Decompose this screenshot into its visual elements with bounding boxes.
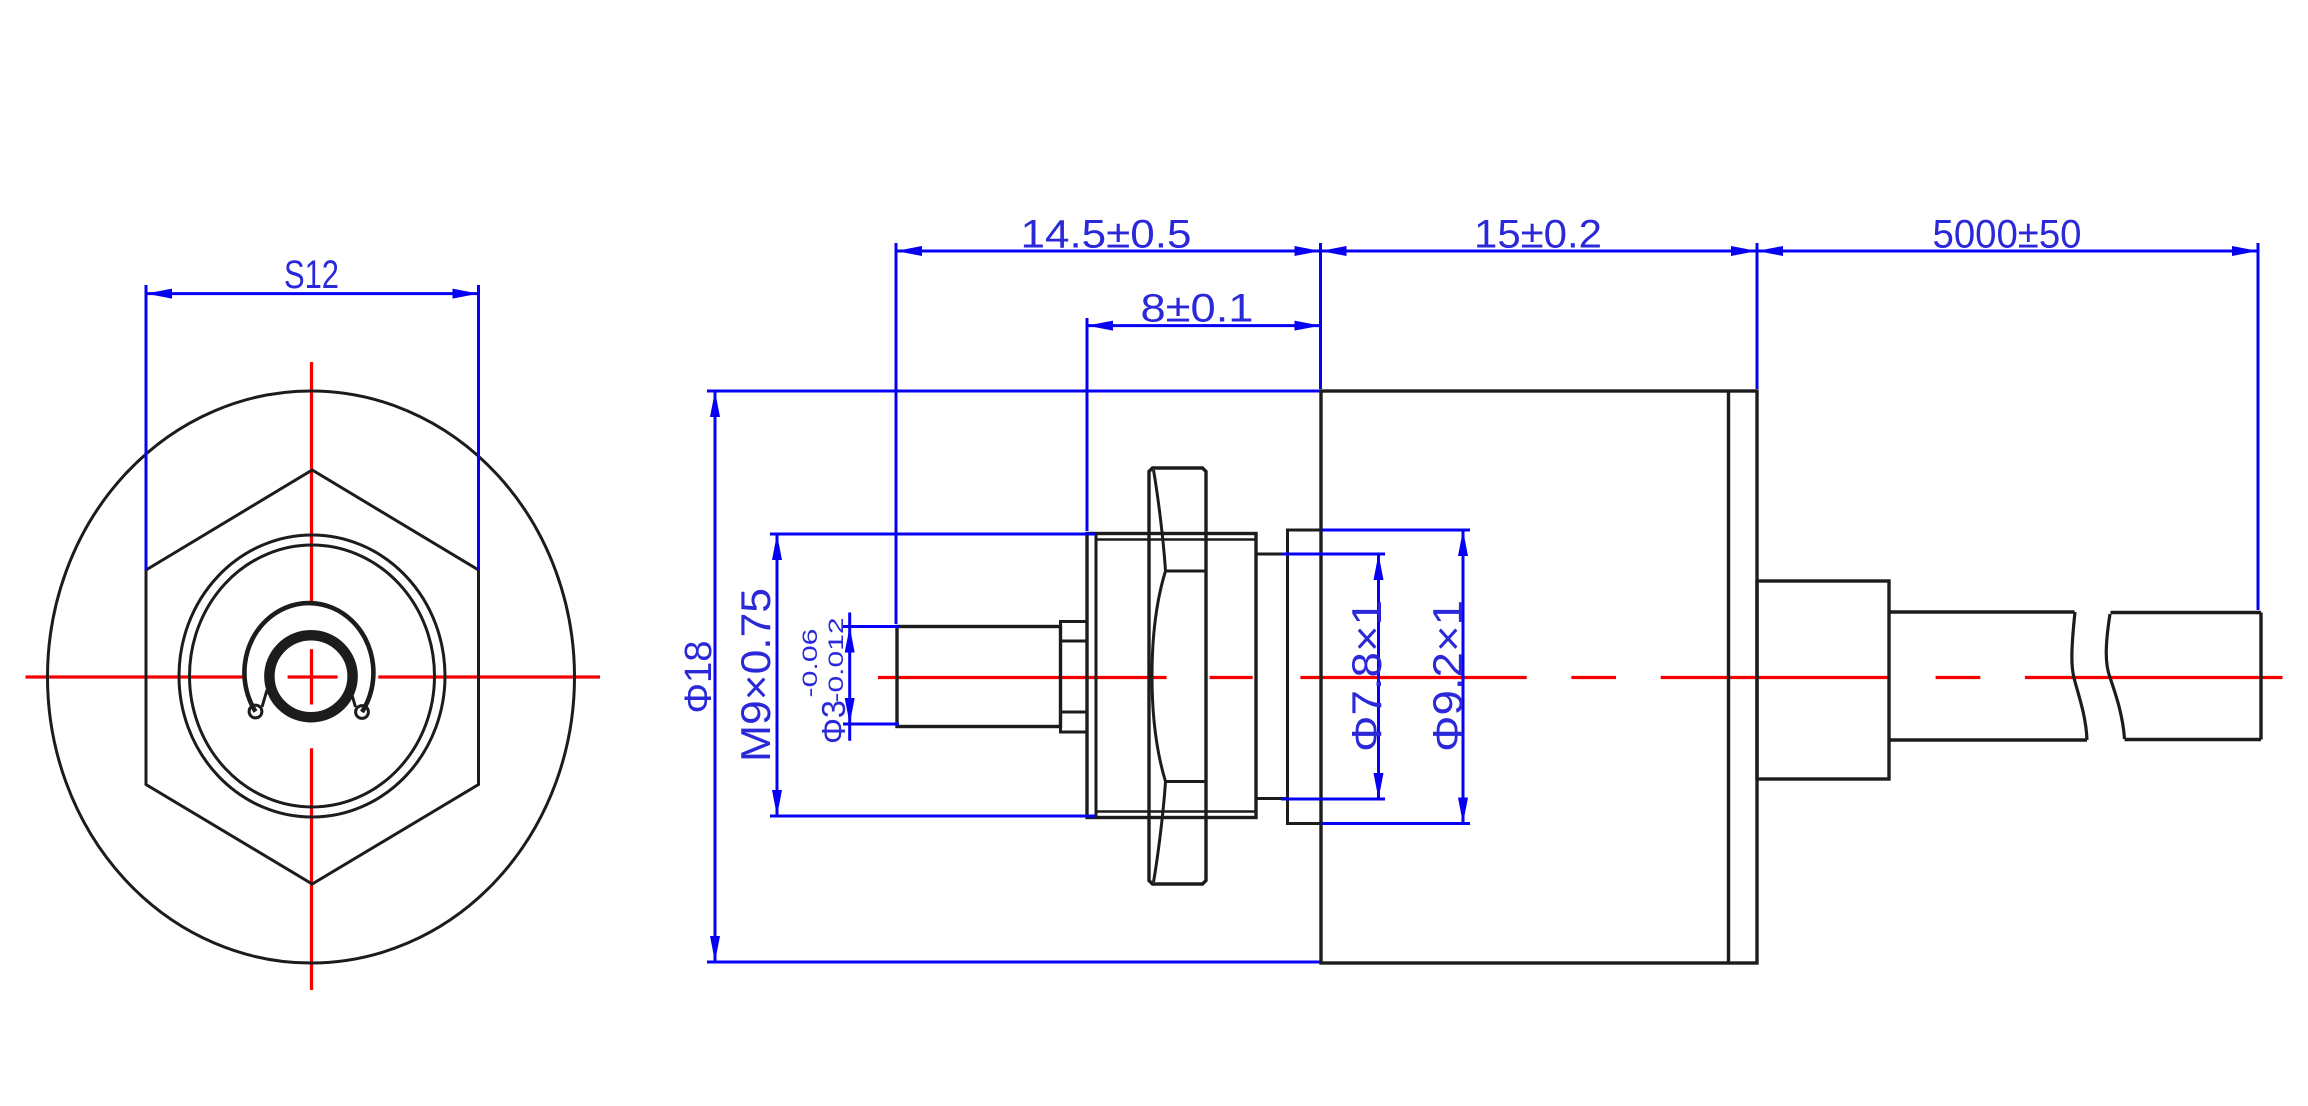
cable break line 1 <box>2072 612 2087 740</box>
14.5 arrows <box>896 246 922 256</box>
shaft (side) <box>897 627 1061 727</box>
8+-0.1 dimension line <box>1087 324 1321 327</box>
threaded bushing (side) <box>1087 534 1256 818</box>
shaft thick ring (front) <box>269 635 352 717</box>
centerline vertical (front view) <box>310 362 313 990</box>
main body (side) <box>1321 391 1757 963</box>
phi3 dimension <box>848 613 851 741</box>
phi7.8 arrows <box>1374 554 1384 580</box>
C-clip arc (front) <box>244 603 373 712</box>
cable top edge right segment <box>2111 611 2262 614</box>
svg-text:S12: S12 <box>284 253 339 297</box>
cable break line 2 <box>2106 614 2124 739</box>
15 arrows <box>1321 246 1347 256</box>
M9x0.75 dimension <box>776 534 779 816</box>
cable top edge left segment <box>1889 610 2075 613</box>
svg-text:-0.06: -0.06 <box>799 629 822 698</box>
svg-text:Φ7.8×1: Φ7.8×1 <box>1343 600 1390 752</box>
phi9.2 dimension <box>1462 530 1465 824</box>
svg-text:15±0.2: 15±0.2 <box>1474 213 1602 257</box>
nut chamfer arc top <box>1154 470 1166 571</box>
phi18 arrows <box>710 391 720 417</box>
C-clip hook right <box>356 706 369 719</box>
hex nut (front) <box>146 470 479 884</box>
extension line shaft left <box>895 243 898 624</box>
neck between bushing and collar (side) <box>1256 553 1288 556</box>
phi7.8 dimension <box>1377 554 1380 799</box>
centerline horizontal (front view) <box>26 675 601 678</box>
C-clip hook left <box>249 705 262 718</box>
collar chamfer line top <box>1061 640 1088 643</box>
body outer circle (front) <box>48 391 575 963</box>
svg-text:Φ9.2×1: Φ9.2×1 <box>1424 600 1471 752</box>
bushing ring outer (front) <box>179 535 445 817</box>
M9 arrows <box>772 534 782 560</box>
nut chamfer arc bottom <box>1154 782 1166 883</box>
nut flat line top <box>1166 570 1207 573</box>
5000 arrows <box>1757 246 1783 256</box>
phi9.2 arrows <box>1458 530 1468 556</box>
phi18 dimension <box>714 391 717 962</box>
extension line bushing left <box>1086 318 1089 531</box>
svg-text:5000±50: 5000±50 <box>1933 213 2082 257</box>
cable bottom edge left segment <box>1889 738 2087 741</box>
nut flat line bottom <box>1166 780 1207 783</box>
extension line body right <box>1756 243 1759 389</box>
nut chamfer arc middle <box>1152 571 1166 782</box>
shaft collar (side) <box>1061 622 1088 733</box>
extension line body left <box>1319 243 1322 389</box>
mounting collar phi9.2 (side) <box>1288 530 1322 824</box>
cable bottom edge right segment <box>2125 738 2262 741</box>
cable gland (side) <box>1757 581 1889 779</box>
centerline (side view) <box>878 676 2283 679</box>
cable end cap <box>2259 613 2262 740</box>
svg-text:8±0.1: 8±0.1 <box>1141 287 1254 331</box>
svg-text:Φ3: Φ3 <box>815 700 852 744</box>
hex nut (side) <box>1149 468 1206 884</box>
extension line cable end <box>2257 243 2260 610</box>
top dimension line 14.5 / 15 / 5000 <box>896 250 2258 253</box>
collar chamfer line bottom <box>1061 711 1088 714</box>
8 arrows <box>1087 321 1113 331</box>
S12 dimension <box>146 285 479 570</box>
svg-text:M9×0.75: M9×0.75 <box>732 588 779 762</box>
body end cap line <box>1727 391 1730 963</box>
bushing face line <box>1095 534 1098 818</box>
dimension arrows <box>710 246 2258 962</box>
thread minor line top <box>1096 538 1256 540</box>
hook return line left <box>262 690 267 707</box>
phi3 arrows <box>845 627 855 653</box>
thread minor line bottom <box>1096 810 1256 812</box>
dimension texts <box>678 213 2082 763</box>
svg-text:-0.012: -0.012 <box>825 618 848 703</box>
bushing ring inner (front) <box>190 545 435 807</box>
hook return line right <box>351 690 356 707</box>
svg-text:Φ18: Φ18 <box>678 641 720 714</box>
svg-text:14.5±0.5: 14.5±0.5 <box>1021 213 1192 257</box>
